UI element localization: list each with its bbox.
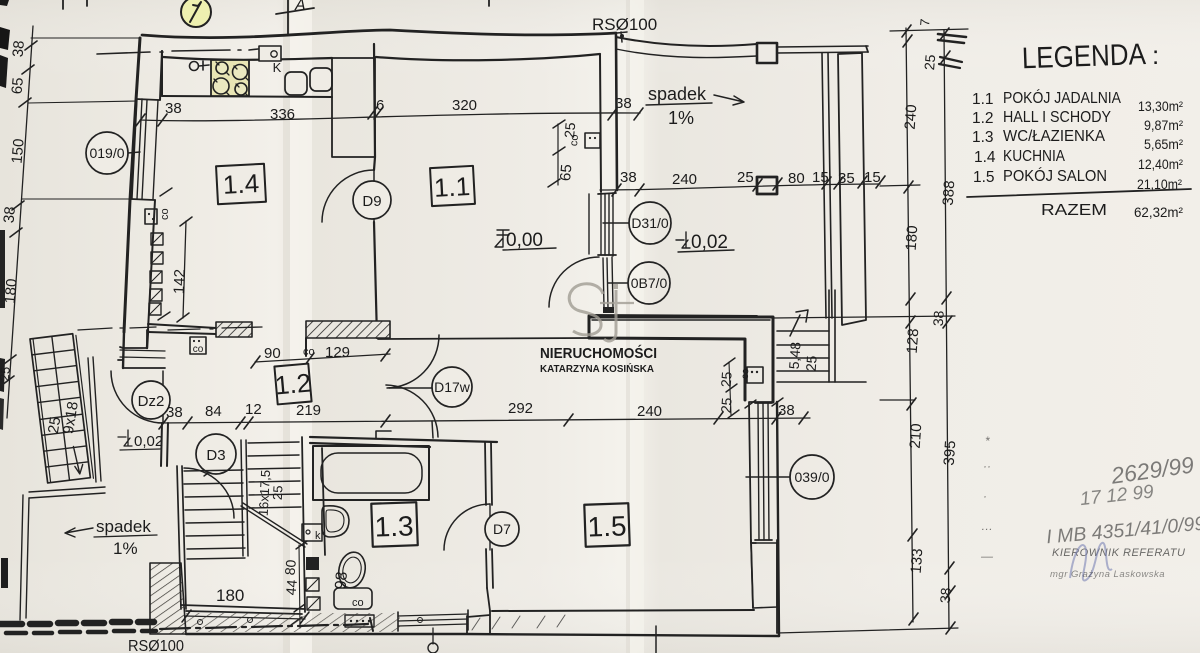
steps arrow [790,315,800,336]
svg-text:0,00: 0,00 [506,230,543,251]
kitchen co box [145,209,157,224]
svg-text:80: 80 [788,170,805,187]
exterior stair outline [30,334,90,483]
bathtub inner [321,453,422,493]
svg-text:1.1: 1.1 [433,171,471,203]
svg-text:…: … [981,519,993,533]
north wall inner edge kitchen [163,57,332,60]
exterior stair down arrow [72,446,83,475]
svg-text:co: co [303,346,315,358]
svg-text:129: 129 [325,344,350,361]
1.5 south wall inner edge [492,610,754,611]
svg-text:12,40m²: 12,40m² [1138,156,1183,172]
svg-text:38: 38 [620,169,637,186]
stair west wall [177,466,186,609]
svg-text:HALL I SCHODY: HALL I SCHODY [1003,109,1111,126]
gas tap symbol left of stove [190,62,199,71]
window 019/0 sill top [136,99,159,100]
1.5 north wall outline [589,316,773,402]
svg-text:98: 98 [332,571,350,590]
svg-text:150: 150 [9,138,28,164]
porch rail right of stairs [88,357,101,482]
tick on riser column [158,188,172,320]
circle label 019/0 [86,132,128,174]
svg-text:25: 25 [921,54,938,71]
leader 019/0 to window [128,152,140,153]
svg-text:D3: D3 [206,447,225,464]
svg-text:7: 7 [917,18,933,27]
steps side line [829,290,835,382]
sink bowl 2 [310,68,332,91]
fold seam center [626,0,630,653]
svg-text:240: 240 [672,171,697,188]
svg-text:62,32m²: 62,32m² [1134,204,1183,220]
svg-text:LEGENDA: LEGENDA [1021,38,1146,75]
stair stringer double line [241,440,248,556]
svg-text:POKÓJ JADALNIA: POKÓJ JADALNIA [1003,88,1121,107]
scanner edge artifact left mid [0,230,5,308]
svg-text:D7: D7 [493,521,511,537]
circle label D3 [196,434,236,474]
dim line 90/129 [255,354,390,362]
svg-text:15: 15 [812,169,829,186]
counter end line at left [161,51,163,96]
wall below entry door [161,423,168,466]
svg-text:RAZEM: RAZEM [1041,202,1107,219]
SJ monogram crossbar [600,302,634,304]
svg-text:12: 12 [245,401,262,418]
south wall step at 1.3/1.5 [467,611,490,634]
svg-text:38: 38 [10,40,28,58]
extension line y400 [880,399,915,401]
terrace railing top double line [777,46,868,53]
legend divider [967,189,1191,197]
svg-text:A: A [294,0,306,14]
spadek arrow entry [65,528,93,537]
door D17w lower arc [386,385,438,437]
svg-text:019/0: 019/0 [89,145,124,161]
legend [972,38,1183,192]
left chain extension line top [31,37,140,39]
svg-text:142: 142 [171,269,189,295]
porch south edge double line [29,487,105,498]
axis dash-dot from stairs to hall [78,327,156,330]
wall fill below window [751,543,777,608]
room label 1.4 [216,164,266,204]
sewer vertical line bottom [655,626,657,653]
window 019/0 frame left [132,99,137,199]
exterior stair inner edge lines [33,334,93,483]
svg-text:D9: D9 [362,193,381,210]
west wall inner line lower [148,200,155,330]
east wall 1.1 inner line [600,55,601,192]
room label 1.3 [371,502,417,547]
svg-text:WC/ŁAZIENKA: WC/ŁAZIENKA [1003,128,1105,145]
svg-text:25: 25 [718,397,735,414]
shaft filled square [306,557,319,570]
bottom-left dash bar row 2 [6,631,156,633]
svg-text:·: · [983,489,987,503]
terrace column top [757,43,777,63]
hatched wall block 2 [306,321,390,338]
door 0B7/0 frame lines [603,257,613,308]
1.5 north wall inner line [592,319,770,321]
window D31/0 reveal left [588,194,590,254]
north wall inner edge room 1.1 [376,54,600,60]
svg-text:1.3: 1.3 [374,510,414,542]
drawing number circle 1 yellow [181,0,211,27]
terrace dim line (38 240 25 80 15 35 15) [600,184,880,190]
dim line y421 [158,418,810,423]
svg-text:320: 320 [452,97,477,114]
wall stub below block2 left [305,338,307,356]
svg-text:38: 38 [778,402,795,419]
svg-text:1.4: 1.4 [222,168,260,200]
hall co box [190,337,206,354]
svg-text:1.3: 1.3 [972,129,994,146]
terrace slab top edge [616,37,757,46]
svg-text:co: co [352,597,364,609]
dim ticks near shaft [291,541,307,625]
stove burner 3 [213,78,229,94]
svg-text:1.4: 1.4 [974,149,996,166]
svg-text:—: — [980,549,994,563]
left chain extension window bottom [22,198,132,200]
door D9 leaf [373,170,375,222]
bottom-left dash bar row 1 [0,622,154,624]
circle label D31/0 [629,202,671,244]
stair bottom area wall hatched [150,563,186,634]
entry threshold lines [120,350,165,358]
svg-text:25: 25 [718,371,735,388]
svg-text:90: 90 [264,345,281,362]
drain line and circle [432,628,434,644]
door D3 arc [184,468,234,518]
level mark -0.02 room 1.5 terrace side [676,232,690,248]
svg-text:128: 128 [904,328,923,354]
window 019/0 sill bottom [131,199,154,200]
svg-text:38: 38 [1,206,19,224]
svg-text:35: 35 [838,170,855,187]
terrace dim ticks [612,176,885,196]
svg-text:25: 25 [45,416,64,435]
axis dash-dot line left of building [97,49,258,54]
stove burner 1 [216,62,228,74]
svg-text:388: 388 [940,180,959,206]
svg-text:039/0: 039/0 [794,469,829,485]
fold shadow left [283,0,290,653]
svg-text:1.5: 1.5 [973,169,995,186]
tiny annotation circles bottom [198,620,203,625]
svg-text:133: 133 [908,548,927,574]
outer chain ticks [940,28,955,634]
ticks 25 25 [724,358,739,418]
svg-text:395: 395 [941,440,960,466]
hatched wall block 1 [216,322,252,337]
svg-text:1.2: 1.2 [972,110,994,127]
svg-text:NIERUCHOMOŚCI: NIERUCHOMOŚCI [540,344,657,362]
stove outline [211,60,249,96]
steps outline [777,331,866,382]
exterior stair center stringer [52,336,70,480]
terrace slab bottom edge [589,315,757,316]
kitchen counter front edge [162,96,332,97]
wall 1.4/1.1 lower [374,222,377,338]
K gas box [259,46,281,61]
door 0B7/0 sill block [603,307,614,313]
svg-text:1%: 1% [113,539,138,558]
svg-text:44: 44 [283,579,300,596]
svg-text:0B7/0: 0B7/0 [631,275,668,291]
wall 1.4/1.1 upper [374,44,375,157]
left chain line [7,26,33,418]
entry niche step [118,330,165,368]
bathroom east wall lower [486,549,493,588]
stove burner 2 [233,65,248,80]
mark 1 end of dash line [370,618,373,631]
svg-text:D17w: D17w [434,379,471,395]
axis dash-dot line across hall top [168,327,262,330]
window 019/0 frame right [153,100,158,199]
svg-text:180: 180 [2,278,21,304]
svg-text:spadek: spadek [96,517,151,536]
circle label 0B7/0 [628,262,670,304]
hatching along bottom wall [186,613,400,632]
1.5 east wall below window [751,540,777,633]
north wall outer edge [142,30,616,38]
dim ticks y421 [159,412,808,429]
hall south wall under stairs [181,605,305,614]
porch west edge double line [20,495,29,620]
outer dim chain vertical [944,30,949,630]
entry west wall upper [123,330,148,368]
level -0.02 entry [118,430,132,446]
svg-text:25: 25 [270,485,286,500]
left chain extension window top [28,101,137,103]
dim 142 vertical [183,221,186,318]
svg-text:1.2: 1.2 [274,367,313,400]
svg-text:25: 25 [803,355,820,372]
svg-text:65: 65 [9,77,27,95]
svg-text:5,65m²: 5,65m² [1144,136,1183,152]
extension line y190 [880,185,920,186]
sink bowl 1 [285,72,307,95]
SJ monogram i stem [604,290,616,341]
scanner edge artifact left 2 [0,55,8,88]
extension line y628 [777,628,958,633]
svg-text:co: co [740,368,751,379]
svg-text:··: ·· [983,459,991,473]
leader D17w [389,387,432,389]
svg-text:co: co [159,208,171,220]
svg-text:KUCHNIA: KUCHNIA [1003,148,1065,165]
terrace slab top inner edge [616,49,757,58]
stair treads lower flight [184,470,245,559]
section A tick [276,8,314,14]
leader D31/0 [603,222,629,224]
svg-text:0,02: 0,02 [134,433,163,450]
svg-text:240: 240 [902,104,921,130]
svg-text:Dz2: Dz2 [138,393,165,410]
svg-text:13,30m²: 13,30m² [1138,98,1183,114]
shaft x-square 2 [307,597,320,610]
scanner edge artifact left lower [0,358,5,392]
inner chain ticks [902,25,918,625]
tick marks top dim [136,107,643,126]
bathroom east wall upper [485,442,492,505]
svg-text:co: co [568,134,581,147]
bathroom west shaft wall [302,437,325,612]
svg-text:mgr Grażyna Laskowska: mgr Grażyna Laskowska [1050,569,1165,580]
window D31/0 frame [601,193,613,256]
1.5 east wall inner [749,402,773,543]
blue signature [1070,543,1112,581]
svg-text:219: 219 [296,402,321,419]
door D7 leaf [489,504,491,550]
co box room 1.1 [585,133,600,148]
stove burner 4 [235,83,247,95]
fold light band [290,0,312,653]
thin wall line from D17w to 1.5 [378,338,589,339]
1.5 south wall outer edge [186,634,779,636]
co box 1.5 SE [747,367,763,383]
extension line y30 top [890,29,968,31]
terrace railing right double vertical [822,53,832,318]
svg-text:25: 25 [737,169,754,186]
svg-text:spadek: spadek [648,84,707,104]
bathroom south window [398,610,468,631]
1.5 east wall outer [777,402,779,636]
svg-text:38: 38 [930,310,947,327]
cupboard block between 1.4 and 1.1 [332,58,375,157]
window 039/0 caps [755,403,772,540]
SJ monogram i dot [613,284,618,289]
svg-text:1.1: 1.1 [972,91,994,108]
riser squares column [151,233,163,245]
circle label D7 [485,512,519,546]
svg-text:80: 80 [282,559,299,576]
svg-text:180: 180 [216,586,244,605]
terrace column lower at dim line [757,177,777,194]
svg-text:KATARZYNA KOSIŃSKA: KATARZYNA KOSIŃSKA [540,362,654,375]
svg-text:k: k [315,530,321,542]
door D17w upper arc [387,335,439,388]
room label 1.2 [273,363,312,404]
svg-text:25: 25 [0,366,13,382]
stair treads upper flight [248,442,301,508]
east wall 1.1 outer line [616,35,617,190]
window 019/0 glass lines [137,99,147,199]
top right rail end marks [938,34,966,43]
door D3 leaf mark [204,463,222,476]
svg-text:180: 180 [903,225,922,251]
svg-text::: : [1152,40,1159,70]
level mark plus-minus 0.00 [495,230,509,247]
step mark at D17w south jamb [376,431,391,438]
dimension line top (38 336 6 320 38) [140,113,640,121]
svg-text:co: co [193,344,204,355]
svg-text:KIEROWNIK REFERATU: KIEROWNIK REFERATU [1052,547,1185,559]
terrace rail rect east [838,53,866,325]
room label 1.5 [584,503,629,547]
door D7 arc [444,504,490,550]
window 039/0 frame [758,403,769,540]
left chain ticks [2,41,37,385]
svg-text:210: 210 [907,423,926,449]
svg-text:240: 240 [637,403,662,420]
bathroom north wall double [310,437,497,447]
toilet bowl [336,550,369,591]
window D31/0 caps [598,193,616,255]
circle label Dz2 [132,381,170,419]
svg-text:*: * [985,434,990,448]
dotted vent box [345,615,374,627]
spadek arrow terrace [714,95,744,105]
svg-text:336: 336 [270,106,295,123]
top edge tick marks [63,0,489,9]
washbasin [322,506,349,537]
dim 38 window ticks [745,398,783,408]
room label 1.1 [430,166,475,206]
scanner edge artifact top-left [0,27,10,50]
extension line y318 [773,316,955,318]
k box [302,524,322,541]
door 0B7/0 arc into 1.1 [549,257,599,307]
svg-text:D31/0: D31/0 [631,215,669,231]
door Dz2 arc [111,371,163,423]
door D17w bottom leaf edge [432,421,433,438]
svg-text:POKÓJ SALON: POKÓJ SALON [1003,166,1107,185]
section A line [287,0,289,35]
svg-text:38: 38 [937,587,954,604]
dim ticks 25/65 [548,120,565,187]
exterior stair treads [32,350,88,467]
bathroom/1.5 south wall transition [487,588,490,611]
stove burner cross marks [214,62,248,96]
toilet tank [334,588,372,609]
inner dim chain vertical [906,28,913,622]
svg-text:38: 38 [165,100,182,117]
wall 1.4/1.1 middle segment [374,157,375,170]
scanner edge artifact top corner [0,0,9,6]
terrace east boundary [866,46,868,52]
leader 039/0 [746,476,790,478]
west wall outer line [124,38,140,332]
svg-text:6: 6 [376,97,384,114]
svg-text:5,48: 5,48 [786,341,804,370]
circle label 039/0 [790,455,834,499]
shaft x-square 1 [306,578,319,591]
scanner edge artifact left bottom [1,558,8,588]
kitchen south wall double line [148,324,216,334]
RS marker [617,32,627,42]
bathtub outer [313,446,429,500]
circle label D9 [353,181,391,219]
circle label D17w [432,367,472,407]
hatch marks right part [472,615,565,630]
svg-text:9,87m²: 9,87m² [1144,117,1183,133]
dim 180 under stairs [186,616,305,619]
stair diagonal rail [241,503,307,547]
svg-text:292: 292 [508,400,533,417]
svg-text:K: K [273,60,282,75]
svg-text:1%: 1% [668,108,694,128]
svg-text:RSØ100: RSØ100 [592,15,657,34]
SJ monogram S [569,284,603,335]
dash-dot line to right [160,624,368,629]
svg-text:RSØ100: RSØ100 [128,638,184,653]
svg-text:84: 84 [205,403,222,420]
